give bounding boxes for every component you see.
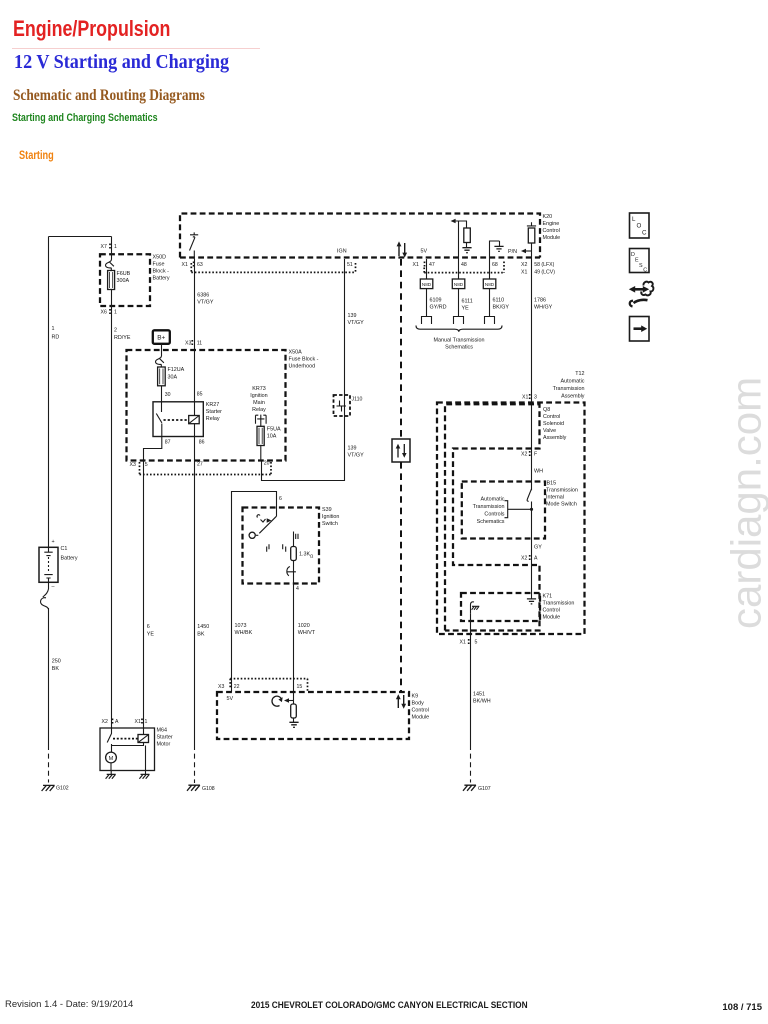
switch contact circle [249, 532, 255, 538]
svg-text:1451: 1451 [473, 692, 485, 698]
svg-text:VT/GY: VT/GY [348, 453, 365, 459]
fusible hook F12UA [156, 356, 164, 367]
svg-text:6: 6 [279, 496, 282, 502]
junction dot [530, 508, 533, 511]
svg-text:C: C [643, 267, 647, 273]
relay KR27 actuation dotted [164, 419, 188, 421]
svg-text:X50A: X50A [289, 350, 303, 356]
svg-text:WH/BK: WH/BK [235, 630, 253, 636]
svg-text:Automatic: Automatic [481, 497, 505, 503]
svg-text:C: C [642, 230, 647, 237]
svg-text:+: + [52, 539, 55, 545]
svg-text:L: L [632, 216, 636, 223]
serial data dashed line upper [400, 259, 402, 439]
svg-text:30A: 30A [168, 375, 178, 381]
svg-text:1: 1 [114, 244, 117, 250]
connector bracket dotted BCM X3 [230, 679, 307, 692]
BCM input arrow from pin15 [287, 700, 294, 702]
svg-text:Module: Module [543, 235, 561, 241]
underbrace manual transmission [416, 326, 502, 332]
header Schematic and Routing Diagrams [13, 87, 205, 105]
ground G108 [187, 785, 200, 791]
ECM K20 dashed box [180, 214, 540, 258]
svg-text:Ignition: Ignition [322, 514, 339, 520]
wire 6111 YE [458, 289, 460, 317]
svg-text:Transmission: Transmission [543, 601, 575, 607]
svg-text:Fuse Block -: Fuse Block - [289, 357, 319, 363]
svg-text:X3: X3 [130, 462, 136, 468]
svg-text:N8D: N8D [454, 282, 464, 287]
svg-text:Battery: Battery [61, 556, 78, 562]
svg-text:M64: M64 [157, 728, 168, 734]
relay KR73 contact [256, 415, 267, 427]
svg-text:YE: YE [147, 632, 155, 638]
wire F5UA to pin 20 [260, 446, 262, 461]
svg-text:63: 63 [197, 262, 203, 268]
key rotate decoration [257, 515, 265, 522]
serial data dashed line lower [400, 462, 402, 692]
svg-text:Manual Transmission: Manual Transmission [434, 338, 485, 344]
svg-text:27: 27 [197, 462, 203, 468]
ground G102 [42, 785, 55, 791]
bracket to wire [505, 501, 532, 518]
svg-text:VT/GY: VT/GY [348, 320, 365, 326]
svg-text:5: 5 [145, 462, 148, 468]
svg-text:A: A [115, 719, 119, 725]
svg-text:X1: X1 [135, 719, 141, 725]
svg-text:30: 30 [165, 392, 171, 398]
connector bracket dotted 47-68 [424, 262, 504, 273]
svg-text:22: 22 [234, 684, 240, 690]
wire 1073 WH/BK riser [232, 492, 277, 693]
svg-text:47: 47 [429, 262, 435, 268]
starter coil wires [112, 728, 144, 746]
connector bracket dotted 63-51 [191, 263, 355, 272]
starter motor output wire [111, 746, 146, 771]
svg-text:Control: Control [543, 228, 560, 234]
wire 139 VT/GY pin51 down [262, 259, 345, 481]
svg-text:Underhood: Underhood [289, 364, 316, 370]
svg-text:BK: BK [52, 666, 60, 672]
svg-text:Control: Control [543, 414, 560, 420]
svg-text:GY/RD: GY/RD [430, 305, 447, 311]
svg-text:KR73: KR73 [252, 386, 266, 392]
wire 6 YE from relay to starter [144, 437, 162, 729]
icon arrow box [630, 317, 650, 342]
svg-text:Solenoid: Solenoid [543, 421, 564, 427]
header title Engine/Propulsion [13, 16, 170, 42]
svg-text:68: 68 [492, 262, 498, 268]
svg-text:1.3K: 1.3K [299, 552, 310, 558]
svg-text:Relay: Relay [252, 407, 266, 413]
wire K71 to X1 5 [470, 614, 472, 745]
footer page number [722, 1002, 762, 1013]
svg-text:86: 86 [199, 440, 205, 446]
svg-text:85: 85 [197, 392, 203, 398]
svg-text:cardiagn.com: cardiagn.com [723, 377, 768, 629]
position ticks [267, 534, 298, 552]
ground G107 [463, 785, 476, 791]
wire X7 branch down [111, 237, 113, 260]
svg-text:1450: 1450 [197, 624, 209, 630]
svg-text:B+: B+ [157, 335, 165, 342]
wire 1451 dashed tail [470, 745, 472, 783]
svg-text:Ignition: Ignition [250, 393, 267, 399]
ECM X1 row dashed [180, 256, 540, 258]
header Starting [19, 150, 54, 162]
BCM circular arrow [272, 696, 282, 706]
P/N internal source bar [527, 222, 536, 226]
B+ feed wire [161, 344, 163, 356]
svg-text:O: O [637, 223, 642, 230]
svg-text:Transmission: Transmission [546, 488, 578, 494]
svg-text:5V: 5V [227, 696, 234, 702]
BCM serial data arrows [398, 695, 403, 708]
battery cell plates [44, 552, 52, 578]
battery dotted center [48, 557, 50, 573]
wire 1450 BK to G108 [194, 424, 196, 745]
svg-text:5: 5 [475, 640, 478, 646]
svg-text:X6: X6 [101, 310, 107, 316]
starter motor M64 box [100, 728, 155, 771]
BCM resistor ground [293, 718, 295, 722]
svg-text:WH/GY: WH/GY [534, 305, 553, 311]
svg-text:1: 1 [114, 310, 117, 316]
svg-text:RD/YE: RD/YE [114, 335, 131, 341]
svg-text:87: 87 [165, 440, 171, 446]
svg-text:F: F [534, 452, 537, 458]
splice J110 symbol [337, 401, 347, 412]
splice J110 dashed box [334, 395, 351, 416]
svg-text:X2: X2 [521, 262, 527, 268]
resistor P/N [528, 228, 535, 243]
wire stub pin 63 [193, 251, 195, 260]
N8D box 1 [420, 279, 433, 289]
svg-text:300A: 300A [117, 278, 130, 284]
wire 6110 pin68 [489, 259, 491, 279]
starter grounds [111, 771, 145, 775]
P/N arrow [524, 250, 532, 252]
svg-text:Assembly: Assembly [561, 394, 585, 400]
svg-text:K20: K20 [543, 214, 553, 220]
svg-text:X1: X1 [522, 395, 528, 401]
svg-text:S39: S39 [322, 507, 332, 513]
svg-text:F12UA: F12UA [168, 367, 185, 373]
svg-text:6386: 6386 [197, 293, 209, 299]
svg-text:X3: X3 [218, 684, 224, 690]
wire below arm [531, 502, 533, 599]
battery wire stubs inside [48, 547, 50, 582]
svg-text:X2: X2 [521, 452, 527, 458]
relay KR27 coil [189, 416, 200, 424]
wire 1020 WH/VT down to BCM [293, 584, 295, 693]
svg-text:G108: G108 [202, 786, 215, 792]
fusible link squiggle [41, 589, 49, 609]
icon DESC box [630, 249, 650, 273]
relay KR27 box [153, 402, 203, 437]
box arrows up/down [398, 444, 404, 458]
svg-text:Relay: Relay [206, 416, 220, 422]
svg-text:VT/GY: VT/GY [197, 300, 214, 306]
svg-text:Q8: Q8 [543, 407, 550, 413]
wire battery negative [48, 582, 50, 589]
transmission inner staircase dashed boundary [445, 404, 540, 630]
svg-text:5V: 5V [421, 249, 428, 255]
svg-text:Starter: Starter [206, 409, 222, 415]
svg-text:KR27: KR27 [206, 402, 220, 408]
svg-text:Fuse: Fuse [153, 262, 165, 268]
svg-text:48: 48 [461, 262, 467, 268]
svg-text:Automatic: Automatic [561, 379, 585, 385]
fuse F6UB [108, 271, 115, 290]
svg-text:WH/VT: WH/VT [298, 630, 316, 636]
svg-text:Battery: Battery [153, 276, 170, 282]
svg-text:X7: X7 [101, 244, 107, 250]
serial data connector box [392, 439, 410, 462]
svg-text:Controls: Controls [484, 512, 504, 518]
svg-text:Transmission: Transmission [553, 386, 585, 392]
header Starting and Charging Schematics [12, 112, 158, 124]
svg-text:58 (LFX): 58 (LFX) [534, 262, 554, 268]
svg-text:6111: 6111 [462, 299, 473, 305]
svg-text:Schematics: Schematics [477, 519, 505, 525]
fuse F5UA [257, 426, 264, 445]
K71 signal ground [527, 599, 536, 604]
wire 250 BK down [48, 608, 50, 745]
battery C1 box [39, 547, 58, 582]
svg-text:X1: X1 [521, 270, 527, 276]
footer center [251, 1000, 528, 1010]
svg-text:RD: RD [52, 335, 60, 341]
red underline [12, 48, 260, 49]
ECM internal pullup for pin 48 [453, 221, 468, 259]
svg-text:N8D: N8D [485, 282, 495, 287]
svg-text:Ω: Ω [310, 554, 314, 559]
connector dots X7 [109, 244, 111, 249]
svg-text:X2: X2 [521, 556, 527, 562]
svg-text:Engine: Engine [543, 221, 560, 227]
wire 6109 pin47 [426, 259, 428, 279]
svg-text:P/N: P/N [508, 249, 517, 255]
svg-text:Valve: Valve [543, 428, 556, 434]
wire 6386 VT/GY pin63 to X50A [194, 259, 196, 416]
relay KR27 contact [156, 402, 162, 437]
svg-text:4: 4 [296, 586, 299, 592]
svg-text:N8D: N8D [422, 282, 432, 287]
serial data up/down arrows [399, 243, 405, 256]
switch stub at circle [256, 534, 258, 536]
inline terminal hook [287, 567, 296, 576]
N8D box 2 [452, 279, 465, 289]
svg-text:Internal: Internal [546, 495, 564, 501]
icon swap arrows [633, 288, 645, 291]
svg-text:Assembly: Assembly [543, 435, 567, 441]
svg-text:Control: Control [543, 608, 560, 614]
svg-text:X1: X1 [413, 262, 419, 268]
svg-text:49 (LCV): 49 (LCV) [534, 270, 555, 276]
fuse block X50D box [100, 254, 150, 306]
mode switch arm [527, 489, 531, 502]
K71 internal case ground [471, 602, 475, 614]
svg-text:WH: WH [534, 469, 543, 475]
svg-text:T12: T12 [575, 371, 584, 377]
svg-text:X1: X1 [182, 262, 188, 268]
svg-text:1: 1 [145, 719, 148, 725]
svg-text:11: 11 [197, 341, 202, 347]
svg-text:10A: 10A [267, 434, 277, 440]
ignition key switch symbol pin63 [190, 232, 199, 250]
starter solenoid coil [138, 735, 149, 743]
footer revision [5, 999, 133, 1010]
svg-text:X50D: X50D [153, 255, 167, 261]
header title 12 V Starting and Charging [14, 51, 229, 74]
svg-text:K71: K71 [543, 594, 553, 600]
svg-text:K9: K9 [412, 694, 419, 700]
svg-text:51: 51 [347, 262, 353, 268]
resistor ECM 48 [464, 228, 471, 243]
transmission T12 dashed box [437, 403, 585, 635]
fusible element hook F6UB [106, 260, 114, 271]
tcm K71 dashed box [461, 593, 540, 621]
wire battery positive vertical [48, 237, 50, 548]
svg-text:–: – [52, 584, 55, 590]
wire F12UA to relay [161, 386, 163, 402]
offpage symbol 1 [422, 317, 432, 325]
mode switch B15 dashed box [462, 482, 545, 539]
svg-text:6110: 6110 [493, 298, 505, 304]
svg-text:Transmission: Transmission [473, 504, 505, 510]
svg-text:F5UA: F5UA [267, 427, 281, 433]
svg-text:X2: X2 [102, 719, 108, 725]
svg-text:15: 15 [297, 684, 303, 690]
svg-text:1073: 1073 [235, 623, 247, 629]
offpage symbol 2 [454, 317, 464, 325]
svg-text:Motor: Motor [157, 742, 171, 748]
svg-text:1: 1 [52, 326, 55, 332]
svg-text:Switch: Switch [322, 521, 338, 527]
svg-text:BK: BK [197, 632, 205, 638]
svg-text:Module: Module [412, 715, 430, 721]
wire 1786 WH/GY ECM to T12 [531, 259, 533, 490]
svg-text:6: 6 [147, 624, 150, 630]
svg-text:Body: Body [412, 701, 425, 707]
fuse block X50A dashed box [127, 350, 286, 461]
svg-text:X3: X3 [185, 341, 191, 347]
svg-text:1786: 1786 [534, 298, 546, 304]
svg-text:J110: J110 [352, 397, 363, 403]
svg-text:Main: Main [253, 400, 265, 406]
wire 250 BK dashed tail [48, 745, 50, 783]
svg-text:X1: X1 [460, 640, 466, 646]
svg-text:1020: 1020 [298, 623, 310, 629]
connector bracket dotted X50A bottom [140, 462, 272, 475]
svg-text:20: 20 [264, 461, 270, 467]
svg-text:6109: 6109 [430, 298, 442, 304]
body control module K9 dashed box [217, 692, 409, 739]
N8D box 3 [483, 279, 496, 289]
starter actuation dotted [113, 738, 138, 740]
svg-text:Schematics: Schematics [445, 345, 473, 351]
svg-text:C1: C1 [61, 546, 68, 552]
svg-text:139: 139 [348, 313, 357, 319]
switch arm S39 [259, 516, 276, 533]
wire 2 RD/YE down to starter [111, 290, 113, 729]
wire 6111 pin48 [458, 259, 460, 279]
svg-text:3: 3 [534, 395, 537, 401]
wire 6110 BK/GY [489, 289, 491, 317]
svg-text:G102: G102 [56, 786, 69, 792]
wire 6109 GY/RD [426, 289, 428, 317]
svg-text:A: A [534, 556, 538, 562]
starter solenoid contact [107, 728, 111, 752]
starter motor M circle [106, 752, 117, 763]
svg-text:YE: YE [462, 306, 470, 312]
svg-text:BK/WH: BK/WH [473, 699, 491, 705]
svg-text:F6UB: F6UB [117, 271, 131, 277]
svg-text:Starter: Starter [157, 735, 173, 741]
BCM resistor [291, 704, 297, 718]
svg-text:Block -: Block - [153, 269, 170, 275]
svg-text:139: 139 [348, 446, 357, 452]
BCM sense wire [293, 692, 295, 704]
wire into resistor [293, 532, 295, 547]
wire P/N to row [531, 243, 533, 259]
svg-text:Mode Switch: Mode Switch [546, 502, 577, 508]
svg-text:IGN: IGN [337, 249, 347, 255]
signal ground ECM 48 [462, 248, 471, 253]
svg-text:GY: GY [534, 545, 542, 551]
ECM internal ground for pin 68 [490, 241, 500, 259]
svg-text:G107: G107 [478, 786, 491, 792]
wire resistor down [293, 561, 295, 584]
label B+ [153, 330, 170, 344]
svg-text:M: M [109, 756, 114, 762]
fuse F12UA [158, 367, 166, 386]
svg-text:BK/GY: BK/GY [493, 305, 510, 311]
svg-text:B15: B15 [547, 481, 557, 487]
ignition switch S39 dashed box [243, 508, 320, 584]
wire top horizontal battery feed [49, 236, 112, 238]
svg-text:250: 250 [52, 659, 61, 665]
svg-text:Module: Module [543, 615, 561, 621]
resistor 1.3K [291, 547, 297, 561]
svg-text:2: 2 [114, 328, 117, 334]
icon LOC box [630, 213, 650, 238]
svg-text:Control: Control [412, 708, 429, 714]
offpage symbol 3 [485, 317, 495, 325]
